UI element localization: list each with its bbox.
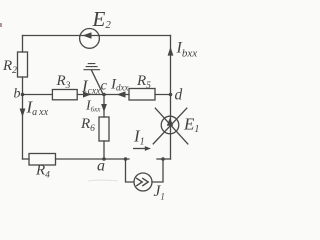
arrow I6xx (down, below node c) — [101, 104, 107, 112]
wire R3 to node c — [77, 94, 104, 96]
wire node c to R5 — [104, 94, 129, 96]
svg-text:R3: R3 — [56, 73, 71, 91]
resistor R4 — [29, 154, 56, 166]
node a — [102, 157, 106, 161]
arrow Idxx (left, right of node c) — [117, 91, 126, 97]
resistor R3 — [52, 90, 77, 100]
arrow Ibxx (up, on right rail) — [168, 47, 174, 56]
svg-text:c: c — [101, 79, 108, 94]
wire node c down to R6 — [103, 95, 105, 118]
svg-text:b: b — [14, 86, 21, 101]
resistor R5 — [129, 89, 155, 101]
svg-text:E1: E1 — [183, 114, 199, 135]
node c — [102, 93, 106, 97]
wire J1 loop right — [152, 159, 163, 182]
svg-text:a: a — [97, 158, 105, 175]
resistor R6 — [99, 117, 109, 141]
svg-text:I6xx: I6xx — [85, 98, 101, 113]
cross X over E1 — [153, 108, 188, 144]
arrow Iaxx (down, on left rail) — [20, 109, 26, 118]
wire left rail upper — [22, 36, 24, 53]
svg-text:Ia xx: Ia xx — [26, 97, 49, 118]
arrow I1 (floating, points right) — [133, 146, 151, 151]
wire bottom right stub — [157, 158, 171, 160]
wire right rail — [170, 36, 172, 160]
wire R5 to node d — [155, 94, 171, 96]
wire top (b-rail top to d-rail top) — [23, 35, 171, 37]
node d — [169, 93, 173, 97]
svg-text:E2: E2 — [92, 7, 112, 31]
resistor R2 — [18, 52, 28, 77]
current source J1 — [134, 173, 152, 191]
arrow Icxx (right, before node c) — [83, 91, 91, 97]
svg-text:Icxx: Icxx — [81, 77, 101, 97]
source E1 (crossed out) — [161, 116, 179, 134]
arrow of E2 (points left) — [83, 32, 92, 38]
wire bottom left — [23, 158, 30, 160]
svg-text:R2: R2 — [2, 58, 17, 76]
svg-text:R6: R6 — [80, 116, 95, 134]
svg-text:J1: J1 — [154, 183, 165, 202]
wire left rail lower — [22, 77, 24, 159]
svg-text:R5: R5 — [136, 73, 151, 91]
ground symbol — [84, 64, 100, 70]
svg-text:Idxx: Idxx — [110, 77, 129, 93]
junction J1 right — [161, 157, 165, 161]
node b — [21, 93, 25, 97]
svg-text:I1: I1 — [133, 127, 145, 148]
wire J1 loop left — [126, 159, 135, 182]
junction J1 left — [124, 157, 128, 161]
svg-text:d: d — [175, 87, 183, 104]
faint scan smudge — [88, 180, 118, 181]
scan speck left edge — [0, 23, 2, 27]
wire b to R3 — [23, 94, 53, 96]
wire R6 to node a — [103, 141, 105, 159]
svg-text:Ibxx: Ibxx — [176, 40, 198, 60]
wire bottom middle — [56, 158, 130, 160]
ground lead diagonal from node c — [92, 70, 104, 95]
arrow of E1 (points up) — [167, 118, 173, 126]
source E2 — [80, 29, 100, 49]
